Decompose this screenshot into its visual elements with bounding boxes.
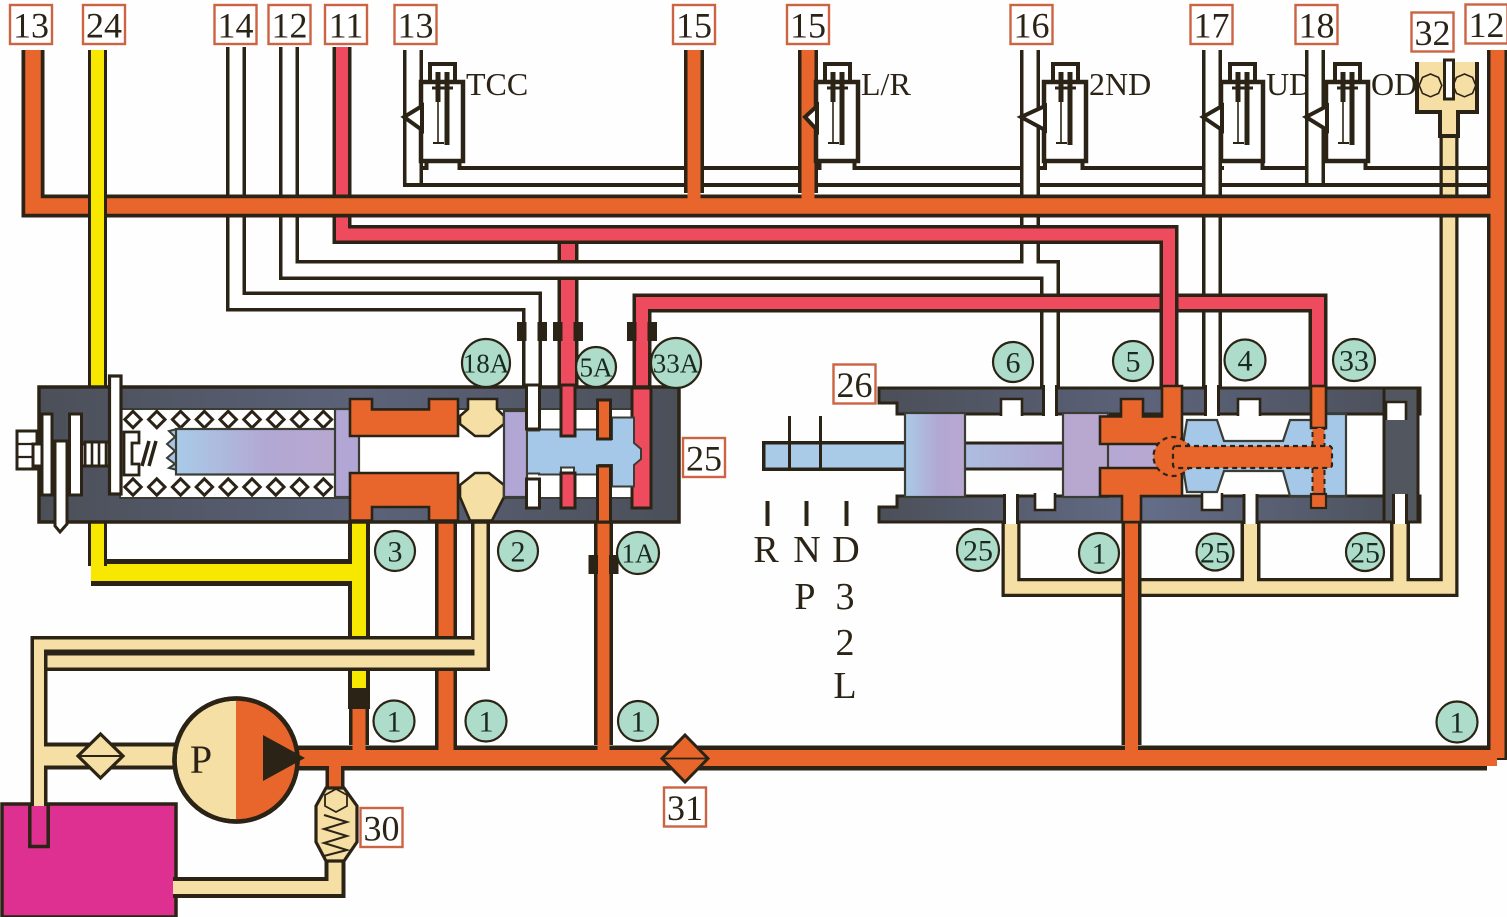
wire line 14 to port 18A (white) (236, 47, 532, 387)
wire port-3/orifice to main (orange) (349, 703, 369, 745)
wire main line 13 top (orange) (33, 50, 1487, 206)
svg-text:OD: OD (1371, 66, 1417, 102)
solenoid OD supply pipe (1305, 50, 1325, 183)
node 1 left (374, 701, 415, 742)
svg-text:25: 25 (1350, 537, 1380, 570)
manual valve bottom cover notches (1035, 493, 1055, 510)
pump P (175, 699, 298, 822)
svg-text:L: L (833, 665, 856, 707)
wire port-1 regulator lower fill patch (439, 700, 454, 754)
label box 17 (1191, 5, 1233, 44)
solenoid UD body (1230, 64, 1255, 86)
svg-text:N: N (793, 529, 820, 571)
svg-text:17: 17 (1194, 5, 1230, 45)
regulator port 2 fluid (cream) lower (460, 473, 504, 521)
manual valve spool land 1 (905, 413, 965, 497)
svg-text:5: 5 (1126, 346, 1141, 379)
wire port 25c drop (cream) (1390, 510, 1410, 581)
svg-text:33: 33 (1339, 345, 1369, 378)
solenoid OD body (1335, 64, 1360, 86)
wire solenoid exhaust channel top line (423, 166, 427, 170)
svg-text:24: 24 (86, 5, 122, 45)
svg-text:D: D (832, 529, 859, 571)
orifice at 18A (517, 322, 527, 341)
solenoid 2ND body (1053, 64, 1078, 86)
wire OD supply pipe (white) (1305, 50, 1325, 166)
svg-text:12: 12 (1469, 5, 1505, 45)
manual valve right end block (1384, 388, 1418, 522)
label box 16 (1011, 5, 1053, 44)
regulator spool land 2 (504, 411, 527, 497)
regulator spool right section (527, 418, 641, 487)
regulator 1A internal port (orange) (598, 400, 611, 439)
svg-text:5A: 5A (580, 352, 614, 382)
wire port-3 drop (yellow) (348, 505, 370, 695)
svg-text:4: 4 (1238, 345, 1253, 378)
svg-text:2: 2 (836, 622, 855, 664)
node 1 mid (466, 701, 507, 742)
suction straw in reservoir (32, 806, 47, 845)
svg-text:26: 26 (837, 365, 873, 405)
svg-text:32: 32 (1415, 13, 1451, 53)
svg-text:16: 16 (1014, 5, 1050, 45)
manual valve port 5 fluid upper (orange) (1100, 386, 1182, 444)
svg-text:3: 3 (836, 576, 855, 618)
wire port-1 regulator to main line (orange vertical) (435, 500, 457, 760)
label box 31 (664, 788, 706, 827)
manual valve spool stem inner (900, 442, 1185, 471)
thermal valve 32 stem slot (1445, 60, 1454, 99)
node 5A (576, 347, 616, 387)
manual valve port 33 channel (orange, dashed inside) (1311, 386, 1326, 428)
node 5 (1113, 341, 1153, 381)
label box 12 right (1466, 5, 1507, 44)
solenoid 2ND supply pipe (1020, 50, 1040, 183)
node 25a (957, 529, 999, 571)
node 1 right (618, 701, 658, 741)
solenoid L/R body (825, 64, 850, 86)
wire port-2 junction patch (469, 640, 476, 650)
manual valve port 25c channel (1394, 494, 1407, 524)
regulator 5A internal port (crimson) (561, 385, 575, 436)
manual valve hidden passage (dashed orange capsule) (1154, 437, 1193, 476)
node 2 (498, 531, 538, 571)
node 4 (1225, 340, 1266, 381)
solenoid TCC supply pipe (403, 50, 423, 183)
svg-text:L/R: L/R (861, 66, 911, 102)
svg-text:12: 12 (272, 5, 308, 45)
manual valve top cover (879, 388, 1420, 414)
orifice at 1A (589, 555, 599, 574)
regulator port 2 fluid (cream) upper (460, 399, 504, 436)
svg-text:2ND: 2ND (1089, 66, 1151, 102)
svg-text:25: 25 (686, 438, 722, 478)
thermal valve 32 body (1417, 62, 1477, 136)
regulator 33A internal bar (crimson) (632, 388, 651, 508)
orifice at port-3 junction (348, 688, 370, 709)
label box 13 TCC (395, 5, 437, 44)
regulator spring guide bar (110, 376, 122, 494)
solenoid TCC nozzle (404, 106, 422, 130)
regulator port 3 fluid (orange) upper (350, 399, 458, 436)
solenoid 2ND nozzle (1021, 106, 1045, 130)
manual valve port 6 channel (1044, 385, 1057, 416)
solenoid OD nozzle (1306, 106, 1327, 130)
regulator spring seat (124, 432, 139, 475)
wire port-2 drop / pump suction branch (cream) (43, 505, 481, 662)
node 25c (1346, 533, 1384, 571)
regulator port 3 fluid (orange) lower (350, 473, 458, 521)
node 25b (1197, 534, 1234, 571)
svg-text:P: P (794, 576, 815, 618)
regulator thread section (85, 442, 109, 466)
node 1A (617, 532, 659, 574)
wire solenoid exhaust channel bottom line (403, 183, 1488, 187)
label box 18 (1296, 5, 1338, 44)
regulator spool land 1 (335, 409, 359, 497)
node 18A (462, 339, 510, 387)
check valve 31 (662, 735, 708, 782)
regulator screw rod (55, 441, 67, 532)
node 6 (993, 342, 1033, 382)
svg-text:1A: 1A (622, 538, 656, 568)
regulator 18A internal port (white) (527, 385, 540, 429)
svg-text:3: 3 (388, 536, 403, 569)
relief valve 30 (316, 788, 357, 861)
svg-text:14: 14 (218, 5, 254, 45)
solenoid UD supply pipe (1202, 50, 1222, 183)
manual valve top cover notches (1001, 399, 1022, 416)
label box 25 regulator (683, 438, 725, 477)
wire 33A to port 33 (crimson) (642, 303, 1318, 387)
wire line 24 (yellow) vertical behind valve (88, 50, 107, 566)
manual valve stem (blue) (762, 441, 910, 471)
filter (suction strainer) (78, 734, 123, 778)
label box 15 left (673, 5, 715, 44)
svg-text:11: 11 (329, 5, 364, 45)
solenoid UD nozzle (1203, 106, 1222, 130)
pressure regulator valve body 25 (39, 387, 679, 522)
orifice at 33A (627, 322, 637, 341)
svg-text:1: 1 (387, 706, 402, 739)
label box 13 left (10, 5, 52, 44)
svg-text:30: 30 (364, 808, 400, 848)
label box 15 LR (787, 5, 829, 44)
label box 11 (325, 5, 367, 44)
svg-text:25: 25 (963, 535, 993, 568)
wire line 24 (yellow) horizontal to port-3 line (91, 559, 352, 586)
node 33A (651, 338, 701, 388)
svg-text:1: 1 (1450, 707, 1465, 740)
manual valve bottom cover (879, 496, 1420, 522)
solenoid TCC body (430, 64, 455, 86)
svg-text:2: 2 (511, 536, 526, 569)
wire L/R supply drop (orange) (798, 50, 818, 193)
wire TCC supply pipe (white) (403, 50, 423, 166)
svg-text:1: 1 (1092, 538, 1107, 571)
svg-text:31: 31 (667, 788, 703, 828)
svg-text:R: R (753, 529, 779, 571)
label box 32 (1412, 13, 1454, 52)
wire 5A branch vertical (crimson) (558, 232, 579, 386)
wire relief-valve return to sump (cream) (173, 862, 335, 888)
label box 24 (83, 5, 125, 44)
svg-text:P: P (190, 737, 212, 782)
regulator adjusting screw (17, 431, 37, 469)
wire 1A drop with orifice (orange) (594, 500, 613, 745)
wire suction manifold vertical patch (34, 640, 44, 846)
wire line 12 right-edge vertical (orange) (1487, 50, 1507, 760)
node 1 manual (1079, 533, 1119, 573)
svg-text:TCC: TCC (466, 66, 528, 102)
orifice at 5A (553, 322, 563, 341)
wire line 15 drop to main (orange) (684, 50, 704, 193)
node 3 (375, 531, 415, 571)
manual valve port 25b channel (1244, 494, 1257, 524)
wire 2ND solenoid feed (white) (1020, 50, 1040, 261)
wire cooler-return trunk (cream) (1011, 110, 1449, 588)
solenoid L/R supply pipe (798, 50, 818, 183)
gear position ticks (766, 501, 770, 526)
label box 12 top (269, 5, 311, 44)
manual valve port 25a channel (1005, 494, 1018, 524)
svg-text:6: 6 (1006, 347, 1021, 380)
wire pump suction line (cream) (43, 743, 176, 770)
svg-text:15: 15 (790, 5, 826, 45)
node 1 far right (1437, 702, 1478, 743)
svg-text:25: 25 (1200, 537, 1230, 570)
wire manual valve port-1 drop (orange) (1122, 505, 1142, 745)
svg-text:1: 1 (479, 706, 494, 739)
manual valve port 5 fluid lower / port 1 (orange) (1100, 468, 1182, 522)
svg-text:15: 15 (676, 5, 712, 45)
wire main pressure line bottom (orange) (290, 746, 1487, 771)
svg-text:13: 13 (398, 5, 434, 45)
node 33 (1333, 339, 1375, 381)
svg-text:1: 1 (631, 706, 646, 739)
label box 14 (215, 5, 257, 44)
wire port 25b drop (cream) (1241, 510, 1261, 581)
svg-text:13: 13 (13, 5, 49, 45)
svg-text:33A: 33A (653, 348, 700, 378)
manual valve port 4 channel (1206, 385, 1219, 416)
reservoir (sump) (2, 804, 176, 917)
wire line 11 to port 5 (crimson) (342, 47, 1169, 387)
wire sump return line (cream upper) (39, 645, 472, 847)
label box 30 (361, 808, 403, 847)
svg-text:18: 18 (1299, 5, 1335, 45)
wire line 12 to port 6 (white) (289, 47, 1050, 388)
svg-text:18A: 18A (463, 348, 510, 378)
wire UD feed / port 4 (white) (1202, 50, 1222, 388)
regulator spool shaft (167, 428, 181, 471)
manual valve stem detent ticks (788, 416, 791, 469)
manual valve spool land 2 (1063, 413, 1108, 497)
label box 26 manual (834, 365, 876, 404)
regulator spring (diamond chain) (125, 411, 332, 495)
pump outlet arrow (263, 735, 305, 781)
wire relief valve feed stub (orange) (326, 766, 345, 790)
wire yellow elbow junction patch (347, 565, 360, 582)
solenoid L/R nozzle (805, 106, 817, 130)
manual valve right spool group (blue) (1182, 414, 1346, 496)
channel stubs under solenoid bodies (425, 159, 429, 170)
